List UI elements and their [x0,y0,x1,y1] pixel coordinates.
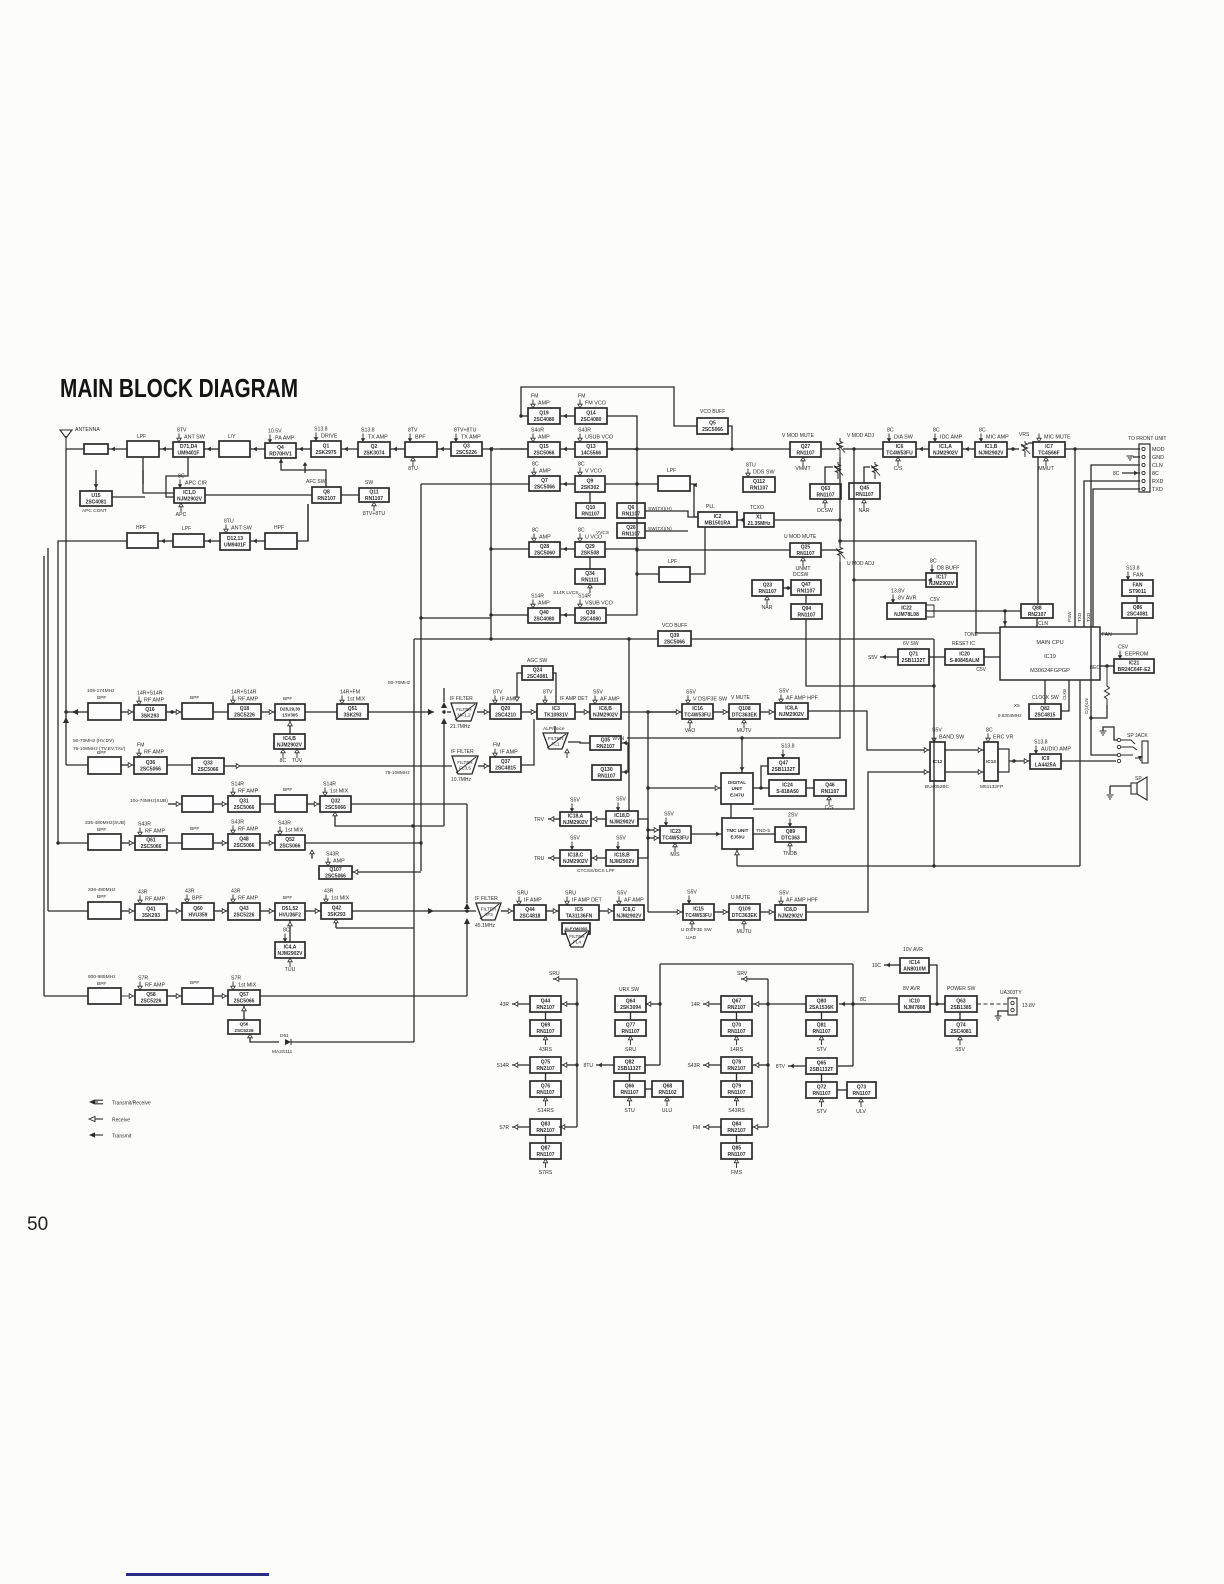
IC24 [769,780,806,796]
svg-text:Q24: Q24 [533,668,543,674]
svg-text:Q42: Q42 [332,906,342,912]
10V AVR IC14 [900,958,929,973]
svg-text:Q74: Q74 [956,1023,966,1029]
LPF L/Y [219,441,250,457]
wire q9 right [605,483,637,485]
wire out [512,1064,530,1066]
amp Q7 [529,476,560,491]
svg-text:S5V: S5V [687,890,697,896]
svg-text:S14R LVCS: S14R LVCS [553,590,579,596]
V mute Q108 [729,704,760,719]
svg-text:V MUTE: V MUTE [731,695,751,701]
Q26 [617,523,645,538]
svg-text:EEPROM: EEPROM [1125,652,1149,658]
svg-text:Q44: Q44 [541,999,551,1005]
Q81 [806,1020,837,1036]
BPF rx1 [88,703,121,720]
svg-text:Q26: Q26 [626,525,636,531]
svg-text:43R: 43R [324,889,334,895]
wire fan link [1100,619,1137,634]
svg-text:Q6: Q6 [628,505,635,511]
svg-text:21.7MHz: 21.7MHz [450,724,471,730]
wire q71-ic20 [929,656,945,658]
svg-text:U MOD MUTE: U MOD MUTE [784,534,817,540]
arrow [269,841,273,846]
wire x577 [576,979,578,1127]
svg-text:8TU: 8TU [224,519,234,525]
tag 8C AMP [532,462,551,477]
wire q57 out [260,995,467,997]
svg-text:Q25: Q25 [801,545,811,551]
svg-text:50-70MHz (HV,DV): 50-70MHz (HV,DV) [73,738,114,744]
svg-text:Q2: Q2 [371,444,378,450]
arrow [755,1063,759,1068]
tag RF AMP Q18 [231,690,259,705]
svg-text:VAO: VAO [685,728,696,734]
RF amp Q58 [135,990,167,1005]
wire x660 t1 [645,1003,660,1005]
svg-text:BPF: BPF [283,696,292,702]
wire ic23 in2 [648,837,660,839]
wire wvn drop [741,738,743,773]
FM VCO Q14 [575,408,607,424]
svg-text:VMMT: VMMT [795,466,811,472]
svg-text:S43R: S43R [138,822,151,828]
Q44b [530,996,561,1012]
arrow [555,977,559,982]
svg-text:BPF: BPF [97,894,106,900]
svg-text:V DS/F3E SW: V DS/F3E SW [693,697,728,703]
svg-text:2SC5066: 2SC5066 [280,844,301,850]
svg-text:STV: STV [816,1047,827,1053]
svg-text:RN2107: RN2107 [536,1066,555,1072]
svg-text:LPF: LPF [668,559,677,565]
connector UA303TY [1000,990,1036,1015]
wire [108,448,127,450]
svg-text:2SB1132T: 2SB1132T [772,767,796,773]
IDC amp IC1A [929,442,962,457]
wire [250,448,265,450]
arrow S43RS [728,1097,745,1114]
svg-text:IC10: IC10 [909,999,920,1005]
svg-text:10o-74MHz(SUB): 10o-74MHz(SUB) [130,798,168,804]
wire q40 out [491,614,528,616]
wire [760,711,775,713]
BPF Q60 [182,903,214,920]
amp Q28 [529,542,560,557]
wire q63-q74 [959,1012,961,1020]
wire [261,711,275,713]
svg-text:Q79: Q79 [732,1084,742,1090]
wire [213,842,228,844]
arrow [563,447,567,452]
svg-text:IF FILTER: IF FILTER [475,896,498,902]
1st mix Q42 [321,903,352,919]
wire q66-q68 [645,1088,652,1090]
RF amp Q31 [228,796,260,812]
svg-text:RN1107: RN1107 [620,1090,638,1096]
q52 lo arrow [310,850,314,859]
svg-text:RN1107: RN1107 [812,1091,830,1097]
svg-text:FM: FM [493,743,501,749]
svg-text:AUDIO AMP: AUDIO AMP [1041,747,1071,753]
wire pair [821,1012,823,1020]
wire q26-pll [645,530,688,532]
svg-text:Q48: Q48 [239,837,249,843]
svg-text:Q47: Q47 [801,582,811,588]
svg-text:2SB1132T: 2SB1132T [902,658,926,664]
svg-text:D71,D4: D71,D4 [180,444,197,450]
svg-text:Q43: Q43 [239,906,249,912]
svg-text:2SC5066: 2SC5066 [234,999,255,1005]
svg-text:BR24C64F-E2: BR24C64F-E2 [1118,667,1151,673]
RF amp Q48 [228,834,260,850]
Q88 [1021,604,1053,618]
svg-text:Q11: Q11 [369,490,378,496]
arrow lo [248,1034,253,1038]
svg-text:AF AMP HPF: AF AMP HPF [786,898,819,904]
Q72 [806,1082,837,1098]
svg-text:BPF: BPF [192,896,203,902]
wire ic4b-d28 [289,720,291,734]
ground ua [995,1016,1002,1020]
wire main y449 [607,448,790,450]
legend transmit [89,1132,132,1139]
Q68 [652,1081,683,1097]
AF amp IC8C [614,905,644,920]
svg-text:S5V: S5V [616,797,626,803]
svg-text:S5V: S5V [593,690,603,696]
svg-text:FAN: FAN [1102,632,1112,638]
svg-text:PLL: PLL [706,504,715,510]
connector TO FRONT UNIT [1128,436,1166,493]
tag FM AMP [531,394,550,409]
svg-text:8TV: 8TV [408,428,418,434]
LVCS arrow [588,584,592,593]
pot V MOD ADJ [836,438,845,457]
BPF tx [405,442,437,457]
arrow [514,1063,518,1068]
Q83 [530,1119,561,1135]
wire antenna feed [66,448,84,450]
svg-text:1st MIX: 1st MIX [347,697,366,703]
TNDB arrow [783,842,798,857]
HPF1 [127,533,158,548]
arrow [176,909,180,914]
tag IF AMP Q37 [493,743,518,758]
wire [260,803,275,805]
svg-text:NJM2902V: NJM2902V [177,497,203,503]
1st mix Q51 [337,704,368,719]
arrow [550,856,554,861]
tag TX AMP [361,428,388,443]
wire agc loop l [517,673,522,700]
svg-text:TRV: TRV [534,817,545,823]
svg-text:2SK3074: 2SK3074 [364,451,385,457]
wire x421-x491 link [421,617,491,619]
VCO buff Q5 [697,418,728,434]
arrow [354,870,358,875]
wire x768 t2 [753,1064,768,1066]
tag S5V c [570,836,581,851]
wire spk a [1110,785,1131,787]
svg-text:SRU: SRU [625,1047,636,1053]
wire out [703,1003,721,1005]
wire ic15 in [648,911,683,913]
svg-text:8C: 8C [280,758,287,764]
wire q33 out [224,765,452,767]
arrow [563,1002,567,1007]
svg-text:HPF: HPF [136,525,146,531]
svg-text:IC19: IC19 [1044,654,1056,660]
svg-text:DDS SW: DDS SW [753,470,775,476]
svg-text:MIC MUTE: MIC MUTE [1044,435,1071,441]
svg-text:TXD: TXD [1152,487,1163,493]
svg-text:NJM7808: NJM7808 [904,1005,926,1011]
svg-text:8C: 8C [532,528,539,534]
EEPROM IC21 [1114,659,1154,673]
svg-text:S5V: S5V [686,690,696,696]
filter FL4 [565,931,589,947]
arrow [886,963,890,968]
ULU arrow [662,1097,673,1114]
Q10 [576,503,605,518]
D8 buff IC17 [926,573,957,587]
wire vco right v [606,416,637,615]
wire ic9-jack [1061,760,1116,762]
svg-text:8TV: 8TV [776,1064,786,1070]
svg-text:Q28: Q28 [540,544,550,550]
Q63 [810,484,841,499]
svg-text:UNIT: UNIT [732,786,743,791]
svg-text:S7R: S7R [499,1125,509,1131]
V VCO Q9 [575,476,605,492]
IC4A [275,942,305,958]
svg-text:Q64: Q64 [626,999,636,1005]
arrow [654,828,658,833]
tag Q47 [781,744,795,759]
wire x768 t1 [753,1003,806,1005]
Q69 [530,1020,561,1036]
arrow [740,767,745,771]
wire [121,995,135,997]
arrow [598,1063,602,1068]
TUV arrow [292,749,303,764]
tag 8V AVR [891,589,917,604]
svg-text:C/S: C/S [894,466,903,472]
IF amp Q44 [514,905,546,920]
svg-text:Q89: Q89 [786,829,796,835]
arrow [623,770,627,775]
svg-text:RN1107: RN1107 [727,1090,745,1096]
svg-text:NJM78L08: NJM78L08 [894,612,919,618]
svg-text:GND: GND [1152,455,1164,461]
arrow [755,1002,759,1007]
svg-text:NJM2902V: NJM2902V [609,820,635,826]
wire c5v run [926,610,1021,612]
svg-text:10.5V: 10.5V [268,429,282,435]
wire [250,540,265,542]
wire [166,711,182,713]
svg-text:TXD: TXD [1086,612,1091,622]
svg-text:VVCS: VVCS [596,530,609,536]
svg-text:Q16: Q16 [145,707,155,713]
wire q82 right [1061,680,1069,711]
svg-text:SRU: SRU [517,891,528,897]
svg-text:RN1107: RN1107 [796,551,814,557]
svg-text:FILTER: FILTER [457,760,473,765]
svg-text:S5V: S5V [617,891,627,897]
svg-text:FILTER: FILTER [569,934,585,939]
svg-text:RN1107: RN1107 [581,512,599,518]
arrow [769,710,773,715]
svg-text:NAR: NAR [762,605,773,611]
amp Q107 [319,866,352,880]
svg-text:RF AMP: RF AMP [238,697,258,703]
Q87 [530,1143,561,1159]
svg-text:IF FILTER: IF FILTER [450,696,473,702]
svg-text:Q45: Q45 [860,486,870,492]
svg-text:1st MIX: 1st MIX [330,789,349,795]
svg-text:Q51: Q51 [348,706,358,712]
wire [121,711,134,713]
tag IDC AMP [933,428,963,443]
svg-text:XF3: XF3 [484,912,493,917]
svg-text:IF FILTER: IF FILTER [451,749,474,755]
svg-text:TA31136FN: TA31136FN [566,914,593,920]
svg-text:UA303TY: UA303TY [1000,990,1022,996]
svg-text:RN2107: RN2107 [727,1128,746,1134]
svg-text:Q20: Q20 [501,706,511,712]
svg-text:Q58: Q58 [146,992,156,998]
arrow [754,1125,758,1130]
wire pair [630,1012,632,1020]
tag 1st MIX Q52 [278,821,304,836]
svg-text:2SC5226: 2SC5226 [234,713,255,719]
audio amp IC9 [1030,754,1061,769]
svg-text:S14RS: S14RS [537,1108,554,1114]
arrow [1134,471,1138,476]
svg-text:FL1: FL1 [552,742,560,747]
svg-text:1st MIX: 1st MIX [285,828,304,834]
tag RF AMP Q61 [138,822,166,837]
arrow [128,763,132,768]
tag IC16 [686,690,728,705]
svg-text:Q109: Q109 [738,907,750,913]
svg-text:IC18,B: IC18,B [614,853,630,859]
TMC unit [722,818,753,849]
arrow [161,539,165,544]
svg-text:S14R: S14R [531,594,544,600]
svg-text:8C: 8C [1152,471,1159,477]
wire x577 t2 [561,1064,577,1066]
IF amp Q37 [490,757,521,772]
svg-text:FAN: FAN [1133,573,1144,579]
wire lpf1 left [637,483,658,485]
wire dig in [648,787,721,789]
svg-text:RN1107: RN1107 [536,1090,554,1096]
svg-text:V VCO: V VCO [585,469,602,475]
PA amp Q4 [265,443,296,458]
wire ic1b-ic1a [962,448,975,450]
tag RF AMP Q31 [231,782,259,797]
svg-text:M/S: M/S [670,852,680,858]
svg-text:TX AMP: TX AMP [368,435,388,441]
svg-text:8C: 8C [930,559,937,565]
svg-text:79-108MHz: 79-108MHz [385,770,410,776]
VMMT arrow [795,457,811,472]
wire txd [1093,489,1140,627]
svg-text:X1: X1 [756,515,762,521]
svg-text:3SK293: 3SK293 [343,713,361,719]
arrow [111,447,115,452]
svg-text:STU: STU [624,1108,635,1114]
svg-text:BPF: BPF [97,750,106,756]
tag S5V d [616,797,627,812]
IF filter MF1,2 [450,696,477,730]
svg-text:IF AMP: IF AMP [500,750,518,756]
wire d8buf in [854,579,926,581]
svg-text:BPF: BPF [190,980,199,986]
TX amp Q3 [451,442,482,456]
RF amp Q36 [134,757,167,774]
wire lo return [291,1041,414,1043]
svg-text:10.7MHz: 10.7MHz [451,777,472,783]
arrow tmc [735,851,740,855]
svg-text:43R: 43R [500,1002,510,1008]
wire [121,764,134,766]
tag 8C AMP2 [532,528,551,543]
svg-text:TUU: TUU [285,967,296,973]
arrow [393,447,397,452]
tag IF AMP Q44 [517,891,542,906]
svg-text:2SA1536K: 2SA1536K [809,1005,834,1011]
arrow [303,462,308,466]
svg-text:43R: 43R [185,889,195,895]
svg-text:2SC5066: 2SC5066 [234,843,255,849]
svg-text:NJM2902V: NJM2902V [933,451,959,457]
svg-text:S5V: S5V [664,812,674,818]
IC18B [606,850,638,866]
arrow [769,910,773,915]
U mute Q109 [729,904,760,920]
tag DRIVE [314,427,338,442]
svg-text:ANTENNA: ANTENNA [75,427,100,433]
ULV arrow [856,1098,866,1115]
svg-text:TNDB: TNDB [783,851,798,857]
D/A sw IC6 [883,442,916,457]
arrow [584,710,588,715]
svg-text:Q68: Q68 [663,1084,673,1090]
wire x629 [628,639,630,811]
svg-text:FM: FM [578,394,586,400]
tag D/A SW [887,428,914,443]
svg-text:8V AVR: 8V AVR [903,986,921,992]
Q75 [530,1057,561,1073]
wire d-a [591,818,606,820]
arrow [279,459,284,463]
svg-text:335-480MHz(SUB): 335-480MHz(SUB) [85,820,126,826]
tag S5V b [616,836,627,851]
svg-text:2SV: 2SV [788,813,798,819]
arrow [440,447,444,452]
wire q88 down [1036,618,1038,627]
wire jack gnd [1103,727,1117,740]
FAN ST9011 [1122,580,1153,596]
svg-text:D51,52: D51,52 [282,906,298,912]
wire [121,910,135,912]
arrow 43RS [539,1036,553,1053]
